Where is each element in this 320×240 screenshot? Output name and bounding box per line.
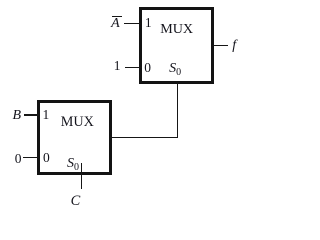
label S0 (top MUX select) bbox=[169, 62, 181, 78]
wire: A-bar input to top MUX pin 1 bbox=[124, 23, 141, 25]
wire: top MUX output f bbox=[212, 45, 228, 47]
label MUX (top) bbox=[160, 22, 193, 36]
label MUX (bottom) bbox=[61, 115, 94, 129]
wire: B input to bottom MUX pin 1 bbox=[24, 114, 39, 116]
label A (input signal) bbox=[111, 17, 120, 31]
pin label 0 (top MUX) bbox=[144, 61, 151, 75]
wire: horizontal from bottom MUX output to select vertical bbox=[110, 137, 178, 139]
wire: vertical from top MUX S0 select down bbox=[177, 82, 179, 138]
label C (select input signal) bbox=[71, 194, 81, 208]
pin label 0 (bottom MUX) bbox=[43, 151, 50, 165]
wire: constant 1 to top MUX pin 0 bbox=[125, 67, 142, 69]
wire: C select input to bottom MUX S0 bbox=[81, 163, 83, 189]
mux U1 (bottom multiplexer) box bbox=[37, 100, 112, 175]
pin label 1 (bottom MUX) bbox=[43, 108, 50, 122]
label constant 1 (top MUX data 0 input value) bbox=[114, 59, 121, 73]
label f (output) bbox=[232, 39, 236, 53]
label S0 (bottom MUX select) bbox=[67, 157, 79, 173]
pin label 1 (top MUX) bbox=[145, 16, 152, 30]
label A-bar overline bbox=[112, 16, 122, 18]
mux U2 (top multiplexer) box bbox=[139, 7, 214, 84]
label B (input signal) bbox=[13, 109, 22, 123]
label constant 0 (bottom MUX data 0 input value) bbox=[15, 152, 22, 166]
wire: constant 0 to bottom MUX pin 0 bbox=[23, 157, 39, 159]
